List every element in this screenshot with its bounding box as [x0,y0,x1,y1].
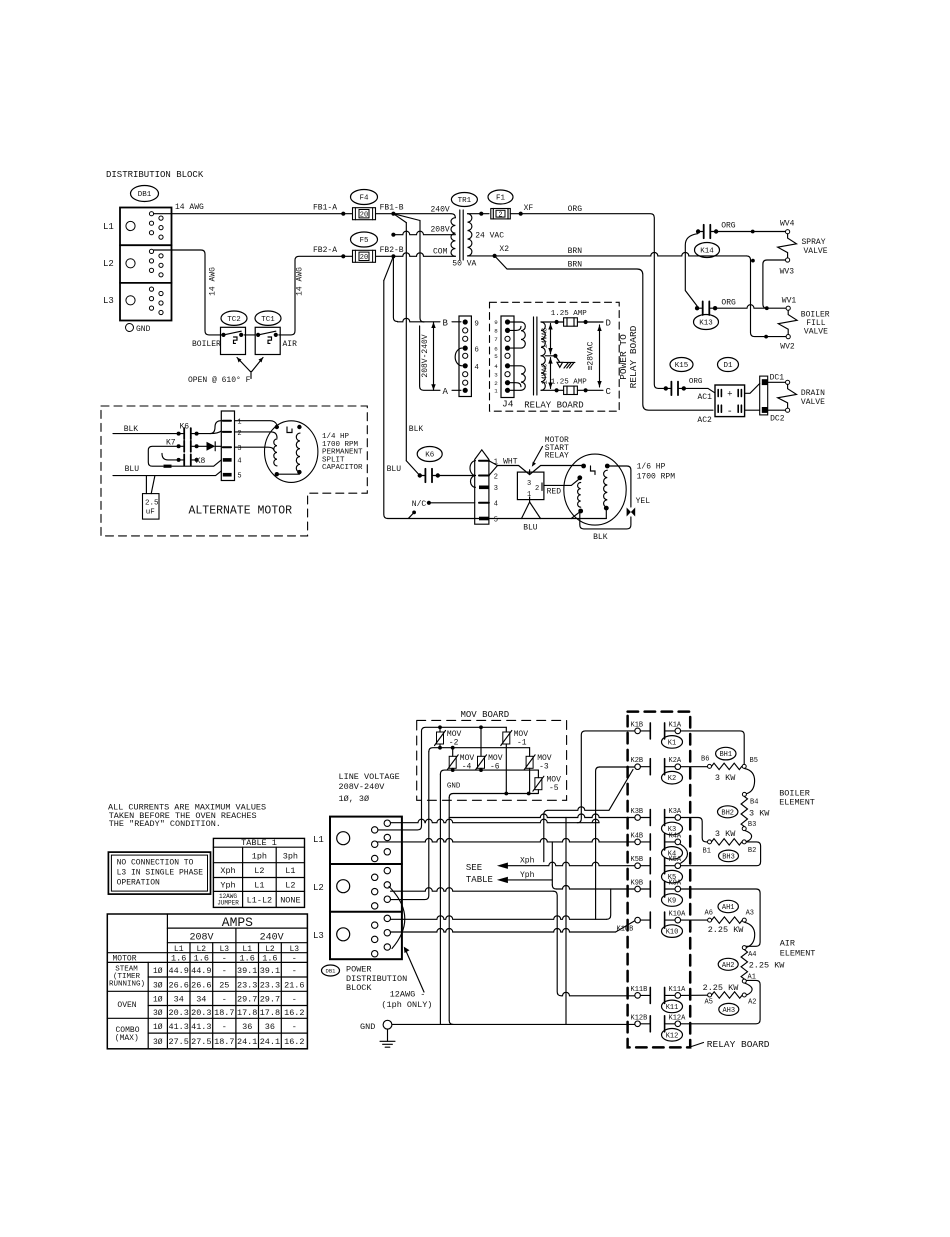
svg-text:208V: 208V [189,933,213,944]
wire K2A to B6 [681,766,708,768]
svg-text:BLOCK: BLOCK [346,983,372,993]
terminal L2 label [103,259,114,269]
wire L1 row to K4B [378,838,635,841]
wire BLK to K6 [406,461,420,476]
svg-text:BRN: BRN [568,261,583,270]
svg-text:-: - [292,966,297,976]
svg-text:9: 9 [494,319,498,326]
svg-text:AC2: AC2 [697,416,712,425]
svg-text:K12: K12 [666,1032,679,1040]
label YEL [636,497,651,506]
wire L2 row to MOV B [391,752,429,900]
svg-text:A6: A6 [705,909,713,917]
heater AH3 2.25KW [703,983,757,1006]
contactor K6 contact [418,469,440,483]
wire MOV GND down [439,774,441,1024]
relay K3 [631,808,683,835]
heater AH2 oval [718,958,738,970]
svg-text:B3: B3 [748,821,756,829]
heater BH1 oval [716,747,736,760]
alt motor wire BLK [113,425,177,434]
svg-text:K9A: K9A [669,880,682,888]
svg-text:AH2: AH2 [722,962,735,970]
svg-text:-5: -5 [549,784,559,793]
wire ORG from XF to K15 [523,205,664,388]
svg-text:5: 5 [494,516,498,524]
wire L1 row to K1B [391,731,635,823]
svg-text:1Ø: 1Ø [153,996,163,1005]
svg-text:3Ø: 3Ø [153,1009,163,1018]
svg-text:AIR: AIR [283,340,298,349]
wire L3 row to K9B [391,889,611,919]
svg-text:6: 6 [474,346,479,354]
svg-text:K4A: K4A [669,832,682,840]
wire WHT to motor [489,461,584,476]
svg-text:(MAX): (MAX) [115,1034,139,1043]
svg-text:L1-L2: L1-L2 [247,895,273,905]
svg-text:3 KW: 3 KW [715,829,736,839]
MOV rail C GND [440,768,538,778]
main motor connector [470,450,489,524]
svg-text:BOILER: BOILER [192,340,221,349]
svg-text:XF: XF [524,204,534,213]
contactor K14 contact [685,222,736,307]
svg-text:1: 1 [237,419,241,427]
labels 14VAC [541,327,549,384]
svg-text:RUNNING): RUNNING) [109,981,145,989]
arrows 14VAC [548,324,552,389]
wire WV2 return [764,335,786,339]
relay board dashed box [490,302,620,411]
wire K15 to AC1 [684,388,715,402]
svg-text:SEE: SEE [466,863,482,873]
svg-text:B5: B5 [750,757,758,765]
svg-text:TABLE: TABLE [466,875,493,885]
alt motor contact K7 [166,439,199,452]
svg-text:Yph: Yph [220,881,235,891]
svg-text:B1: B1 [703,848,711,856]
label BLK main [409,425,424,434]
label MOV BOARD [461,710,510,720]
svg-text:TR1: TR1 [458,197,472,205]
terminal C [606,387,612,397]
wire A3 to A4 [744,922,754,947]
varistor MOV-1 [501,730,528,748]
wire K14 to WV4 [716,230,785,234]
svg-text:-: - [222,1022,227,1032]
alternate motor dashed box [101,406,367,536]
svg-text:1.6: 1.6 [194,954,209,964]
svg-text:CAPACITOR: CAPACITOR [322,464,363,472]
pin labels 9 6 4 [474,320,479,372]
svg-text:GND: GND [360,1022,375,1032]
svg-text:20.3: 20.3 [191,1008,211,1018]
center tap ground [553,354,575,368]
amps table [107,914,307,1049]
wire K3A to B1 [681,818,708,842]
wire TC2 to TC1 [244,334,255,336]
svg-text:9: 9 [474,320,479,328]
svg-text:A4: A4 [748,951,756,959]
svg-text:AC1: AC1 [698,393,713,402]
svg-text:34: 34 [196,995,206,1005]
svg-text:3 KW: 3 KW [715,773,736,783]
svg-text:TC1: TC1 [261,316,275,324]
svg-text:12AWG -: 12AWG - [390,990,426,1000]
svg-text:4: 4 [474,364,479,372]
svg-text:-: - [292,995,297,1005]
svg-text:27.5: 27.5 [191,1037,211,1047]
svg-text:WV1: WV1 [782,297,797,306]
svg-text:34: 34 [174,995,184,1005]
svg-text:SPLIT: SPLIT [322,456,345,464]
svg-text:1: 1 [494,388,498,395]
svg-text:RELAY: RELAY [545,452,569,461]
svg-text:D1: D1 [723,362,733,370]
svg-text:14VAC: 14VAC [541,327,549,348]
svg-text:B: B [443,318,449,328]
contactor K15 oval [670,358,693,372]
svg-text:K1A: K1A [669,721,682,729]
svg-text:-: - [727,407,733,418]
svg-text:BH3: BH3 [722,853,735,861]
svg-text:29.7: 29.7 [237,995,257,1005]
svg-text:LINE VOLTAGE: LINE VOLTAGE [339,772,400,782]
svg-text:18.7: 18.7 [214,1008,234,1018]
wire BRN upper [497,247,764,337]
fuse F4 FB1-A 20A FB1-B [313,204,404,220]
alt motor wire BLU [113,465,221,476]
transformer TR1 oval [451,193,477,207]
svg-text:3: 3 [494,485,498,493]
svg-text:FB2-B: FB2-B [380,246,404,255]
svg-text:16.2: 16.2 [284,1008,304,1018]
svg-text:FB1-B: FB1-B [380,204,404,213]
relay K4 [631,832,683,859]
svg-text:RELAY BOARD: RELAY BOARD [707,1039,770,1050]
transformer TR1 primary [451,210,463,260]
svg-text:L3: L3 [313,931,324,941]
svg-text:K10A: K10A [669,911,687,919]
svg-text:44.9: 44.9 [168,966,188,976]
terminal label L3 bottom [313,931,324,941]
terminal label L2 bottom [313,883,324,893]
svg-text:TC2: TC2 [227,316,241,324]
alt motor K7 left wiring [148,446,221,468]
jumper 12AWG arc [389,887,405,949]
alt motor pin labels [237,419,241,481]
svg-text:2.25 KW: 2.25 KW [703,983,740,993]
heater AH1 oval [718,900,738,912]
wire B3 to B2 [745,831,752,842]
svg-text:-1: -1 [517,739,527,748]
svg-text:K11B: K11B [631,986,648,994]
MOV rail A [422,725,507,756]
MOV board dashed box [417,720,567,800]
wire BRN lower [495,256,713,410]
main connector pin labels [494,459,498,525]
drain valve connector [745,376,768,415]
bracket 208V-240V [421,322,436,390]
wire K3B row [449,814,635,817]
svg-text:VALVE: VALVE [804,328,828,337]
relay K9 [631,880,683,907]
distribution block DB1 [120,208,172,321]
spray valve WV4 WV3 [778,220,828,277]
svg-text:24 VAC: 24 VAC [475,232,504,241]
svg-text:DC1: DC1 [770,374,785,383]
svg-text:K5B: K5B [631,856,644,864]
wire BLU drop from FB2-B [384,281,388,519]
svg-text:2: 2 [535,485,539,493]
svg-text:K11A: K11A [669,986,687,994]
svg-text:2: 2 [494,380,498,387]
svg-text:Xph: Xph [520,857,535,866]
alt motor contact K8 [162,454,206,466]
svg-text:DB1: DB1 [326,967,337,974]
wire K12A to A1 [681,980,761,1023]
wires MSR bottom [522,502,541,519]
svg-text:23.3: 23.3 [260,980,280,990]
fuse 1.25 AMP lower [551,378,603,394]
svg-text:+: + [727,389,732,399]
svg-text:1/6 HP: 1/6 HP [637,463,666,472]
svg-text:L2: L2 [265,945,275,954]
wire TC1 up to fuse F5, 14 AWG [279,256,344,335]
svg-text:NO CONNECTION TO: NO CONNECTION TO [117,859,194,868]
wire Yph chain to K9B [552,842,635,889]
connector edge strip [455,316,471,397]
ground terminal GND [126,324,151,335]
svg-text:20: 20 [360,211,368,219]
svg-text:NONE: NONE [280,895,300,905]
svg-text:1Ø, 3Ø: 1Ø, 3Ø [339,794,370,804]
svg-text:BLU: BLU [387,465,402,474]
label RELAY BOARD bottom [692,1039,770,1050]
svg-text:K2B: K2B [631,757,644,765]
varistor MOV-4 [447,754,474,772]
svg-text:L2: L2 [254,866,264,876]
motor start relay box [517,470,544,502]
varistor MOV-3 [524,754,552,772]
heater BH3 3KW [703,829,757,856]
svg-text:K9: K9 [668,898,676,906]
wire L3 row to K10B [391,921,635,932]
svg-text:DC2: DC2 [770,415,785,424]
svg-text:L2: L2 [285,881,295,891]
svg-text:L1: L1 [254,881,264,891]
svg-text:44.9: 44.9 [191,966,211,976]
svg-text:L3: L3 [103,296,114,306]
svg-text:240V: 240V [260,933,284,944]
wire WV3 down to WV1 [763,260,786,310]
svg-text:1/4 HP: 1/4 HP [322,433,350,441]
svg-text:3 KW: 3 KW [749,809,770,819]
label 12AWG 1ph only with arrow [381,947,432,1010]
label POWER DISTRIBUTION BLOCK [346,965,407,994]
svg-text:K8: K8 [196,457,206,466]
svg-text:-: - [222,995,227,1005]
svg-text:39.1: 39.1 [237,966,257,976]
svg-text:3Ø: 3Ø [153,981,163,990]
heater BH1 3KW [701,756,758,784]
svg-text:WV3: WV3 [780,268,795,277]
svg-text:OPERATION: OPERATION [117,878,160,887]
svg-text:F4: F4 [359,195,369,203]
svg-text:16.2: 16.2 [284,1037,304,1047]
relay transformer secondary 14VAC windings [541,322,557,390]
wire K2B to L3 row [596,767,635,919]
fuse F1 2A XF [479,204,533,219]
label N/C [412,500,475,509]
wire K13 to WV1 [715,305,786,308]
svg-text:N/C: N/C [412,500,427,509]
heater BH3 oval [719,850,739,862]
svg-text:36: 36 [242,1022,252,1032]
connector J4 [494,316,514,398]
svg-text:29.7: 29.7 [260,995,280,1005]
svg-text:208V-240V: 208V-240V [421,334,430,377]
svg-text:RELAY BOARD: RELAY BOARD [628,325,639,388]
varistor MOV-6 [476,754,503,772]
svg-text:OPEN @ 610° F: OPEN @ 610° F [188,376,251,385]
relay transformer core [534,317,537,395]
label SEE TABLE [466,863,493,885]
svg-text:24.1: 24.1 [260,1037,280,1047]
svg-text:7: 7 [494,336,498,343]
thermal cutout TC2 BOILER [192,327,246,354]
fuse F4 oval [351,190,378,205]
svg-text:2: 2 [494,473,498,481]
svg-text:17.8: 17.8 [237,1008,257,1018]
svg-text:ORG: ORG [721,222,736,231]
svg-text:BH1: BH1 [719,751,732,759]
svg-text:2: 2 [498,211,502,219]
thermal cutout TC1 oval [255,311,281,325]
svg-text:20: 20 [360,254,368,262]
svg-text:ELEMENT: ELEMENT [780,948,816,958]
svg-text:COM: COM [433,248,448,257]
note box no connection to L3 [108,852,210,894]
relay transformer primary windings [510,322,525,390]
svg-text:FB2-A: FB2-A [313,246,337,255]
svg-text:36: 36 [265,1022,275,1032]
label 28VAC with arrow [587,325,602,387]
svg-text:4: 4 [494,363,498,370]
svg-text:JUMPER: JUMPER [217,900,239,907]
wire L2 down to TC2, 14 AWG [154,250,222,335]
relay K12 [631,1014,687,1041]
svg-text:F5: F5 [359,237,369,245]
label GND mov [447,783,461,791]
transformer TR1 secondary 24 VAC [452,214,504,269]
svg-text:K2: K2 [668,775,676,783]
svg-text:1ph: 1ph [252,852,267,862]
svg-text:K5A: K5A [669,856,682,864]
svg-text:K14: K14 [700,248,714,256]
svg-text:2.5: 2.5 [145,500,159,508]
svg-text:ALTERNATE MOTOR: ALTERNATE MOTOR [189,505,293,518]
relay K2 [631,757,683,784]
svg-text:K10: K10 [666,929,679,937]
note all currents [108,803,266,830]
svg-text:L2: L2 [196,945,206,954]
wire K11A to A5 [681,994,708,996]
rectifier D1 bridge [715,385,745,418]
label BLU main [387,465,402,474]
wire K4A K5A strap [681,844,688,863]
svg-text:THE "READY" CONDITION.: THE "READY" CONDITION. [109,819,221,829]
wire MOV rail D down [449,798,453,1025]
svg-text:L1: L1 [313,835,324,845]
svg-text:3: 3 [527,480,531,488]
svg-text:J4: J4 [502,399,514,410]
table 1 [213,838,304,907]
svg-text:GND: GND [447,783,461,791]
svg-text:L3: L3 [219,945,229,954]
power distribution block [330,817,402,960]
wire motor loop with YEL diode [580,466,635,529]
svg-text:5: 5 [237,473,241,481]
heater AH1 2.25KW [705,909,755,935]
svg-text:K10B: K10B [617,926,634,934]
svg-text:2.25 KW: 2.25 KW [708,925,745,935]
svg-text:4: 4 [237,458,241,466]
svg-text:ELEMENT: ELEMENT [779,798,815,808]
svg-text:K4B: K4B [631,832,644,840]
label BOILER ELEMENT [779,789,815,808]
svg-text:-: - [222,954,227,964]
relay K10 [617,911,687,938]
svg-text:RED: RED [547,488,562,497]
power distribution block DB1 oval [322,965,340,976]
varistor MOV-5 [533,776,561,794]
contactor K15 contact [664,378,703,395]
svg-text:L2: L2 [313,883,324,893]
svg-text:K6: K6 [425,452,435,460]
alt motor wire K6 to pins 1 2 [197,421,222,434]
svg-text:5: 5 [494,353,498,360]
svg-text:20.3: 20.3 [168,1008,188,1018]
label RED [547,488,562,497]
label LINE VOLTAGE [339,772,400,804]
svg-text:K2A: K2A [669,757,682,765]
wire vertical phase to GND row [565,818,567,1025]
svg-text:B6: B6 [701,756,709,764]
fuse 1.25 AMP upper [551,310,603,326]
node X2 [493,245,510,258]
svg-text:1Ø: 1Ø [153,1023,163,1032]
svg-text:AIR: AIR [780,939,795,949]
svg-text:2.25 KW: 2.25 KW [749,961,786,971]
svg-text:-: - [222,966,227,976]
rectifier D1 oval [718,358,739,372]
thermal cutout TC1 AIR [255,327,297,354]
svg-text:A3: A3 [746,909,754,917]
relay K5 [631,856,683,883]
svg-text:1700 RPM: 1700 RPM [322,441,359,449]
wire Xph to K2B [544,770,633,862]
svg-text:26.6: 26.6 [168,980,188,990]
svg-text:BLK: BLK [409,425,424,434]
contactor K6 oval [417,447,442,462]
wire GND to K12B [392,1023,635,1025]
svg-text:25: 25 [219,980,229,990]
heater AH2 2.25KW [741,946,785,984]
svg-text:1.25 AMP: 1.25 AMP [551,310,588,318]
svg-text:14VAC: 14VAC [541,363,549,384]
label 240V [431,206,450,215]
